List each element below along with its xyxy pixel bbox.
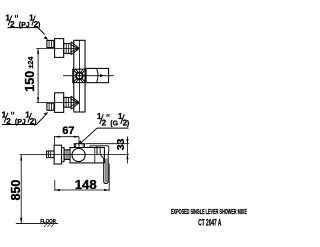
leader arrow top PJ	[44, 36, 49, 40]
svg-text:(G: (G	[110, 120, 118, 127]
bottom inlet: hex facets	[66, 97, 69, 107]
svg-text:148: 148	[75, 177, 97, 192]
svg-text:±24: ±24	[28, 57, 35, 69]
front view: centerline	[20, 154, 130, 156]
top view: plan centerline	[63, 75, 114, 77]
front view: nipple threads	[49, 151, 51, 158]
dim 150: extension line bottom	[36, 102, 79, 104]
dim 33: arrow up to centerline	[126, 155, 128, 160]
dim 67: right extension	[78, 137, 80, 147]
leader arrow G	[78, 140, 83, 144]
front view: hex connector	[64, 150, 70, 160]
top view: body column	[74, 40, 85, 112]
bottom inlet: union nut	[55, 93, 64, 113]
svg-text:850: 850	[9, 180, 23, 201]
svg-text:(PJ: (PJ	[15, 119, 26, 126]
leader: bottom PJ label	[2, 116, 45, 125]
top PJ double prime	[15, 15, 17, 18]
svg-text:): )	[34, 119, 36, 126]
dim 148: arrow right	[104, 189, 109, 191]
dim 33: arrow down to top	[126, 139, 128, 144]
label bottom PJ half-inch	[2, 111, 37, 127]
svg-text:CT 2047 A: CT 2047 A	[198, 217, 222, 228]
top inlet: nipple threads	[49, 40, 51, 47]
top inlet: cone	[71, 42, 79, 55]
svg-text:): )	[38, 22, 40, 29]
front view: lever grip inner lines	[105, 159, 107, 183]
top view: handle rect	[86, 68, 109, 82]
top view: valve cone X diagonals	[73, 69, 86, 82]
leader: G label	[82, 128, 129, 142]
front view: lever neck diagonal	[100, 155, 104, 159]
bottom inlet: nipple threads	[49, 103, 51, 110]
dim 148: left extension	[54, 180, 56, 191]
svg-text:33: 33	[115, 138, 127, 150]
bottom inlet: nipple	[47, 103, 54, 110]
top inlet: hex facets	[66, 44, 69, 54]
svg-text:): )	[127, 120, 129, 127]
front view: collar	[62, 148, 65, 162]
top view: valve center cross	[78, 74, 81, 77]
dim 33: top extension	[86, 143, 130, 145]
top view: handle arrow	[100, 74, 103, 77]
dim 150: dimension line	[37, 48, 39, 102]
dim 150: arrow down	[37, 97, 39, 102]
top view: handle arc	[97, 68, 99, 82]
front view: outlet stub	[74, 144, 84, 148]
dim 67: arrow left	[55, 136, 60, 138]
svg-text:67: 67	[62, 125, 74, 137]
front view: body seam	[94, 148, 96, 163]
bottom PJ double prime	[11, 112, 13, 115]
front view: lever canopy	[90, 146, 109, 151]
label G half-inch	[97, 112, 129, 128]
top view: body center seam	[78, 40, 80, 112]
front view: cartridge circle	[72, 148, 85, 161]
svg-text:EXPOSED SINGLE LEVER SHOWER MI: EXPOSED SINGLE LEVER SHOWER MIXER	[171, 209, 247, 217]
front view: lever grip	[104, 150, 109, 183]
dim 67: arrow right	[74, 136, 79, 138]
top inlet: hex tail	[64, 44, 71, 54]
front view: nipple	[47, 151, 55, 158]
front view: hex facets	[66, 150, 68, 160]
top view: valve box	[73, 69, 86, 82]
dim 150: extension line top	[36, 47, 79, 49]
dim 850: dimension line	[20, 155, 22, 223]
bottom inlet: hex tail	[64, 97, 71, 107]
label top PJ half-inch	[6, 14, 41, 30]
svg-text:FLOOR: FLOOR	[40, 219, 56, 226]
svg-text:150: 150	[23, 71, 37, 92]
leader arrow bottom PJ	[44, 112, 49, 116]
dim 850: arrow up	[20, 155, 22, 161]
top view: valve circle	[76, 73, 83, 80]
dim 148: dimension line	[55, 189, 109, 191]
dim 67: dimension line	[55, 136, 79, 138]
leader: top PJ label	[8, 28, 45, 35]
top inlet: nipple	[47, 40, 54, 47]
front view: body block	[70, 148, 104, 163]
front view: lever pivot lines	[97, 146, 100, 155]
dim 850: arrow down	[20, 218, 22, 224]
front view: outlet stub inner lines	[76, 144, 83, 148]
floor hatch	[44, 224, 54, 227]
front view: escutcheon	[54, 145, 61, 164]
dim 33: dimension line	[126, 137, 128, 164]
dim 148: right extension	[108, 164, 110, 191]
top inlet: union nut	[55, 39, 64, 58]
dim 148: arrow left	[55, 189, 60, 191]
dim 150: arrow up	[37, 48, 39, 53]
floor line	[16, 223, 58, 225]
G double prime	[107, 114, 109, 117]
dim 67: left extension	[54, 136, 56, 145]
bottom inlet: cone	[71, 96, 79, 109]
svg-text:(PJ: (PJ	[19, 22, 30, 29]
